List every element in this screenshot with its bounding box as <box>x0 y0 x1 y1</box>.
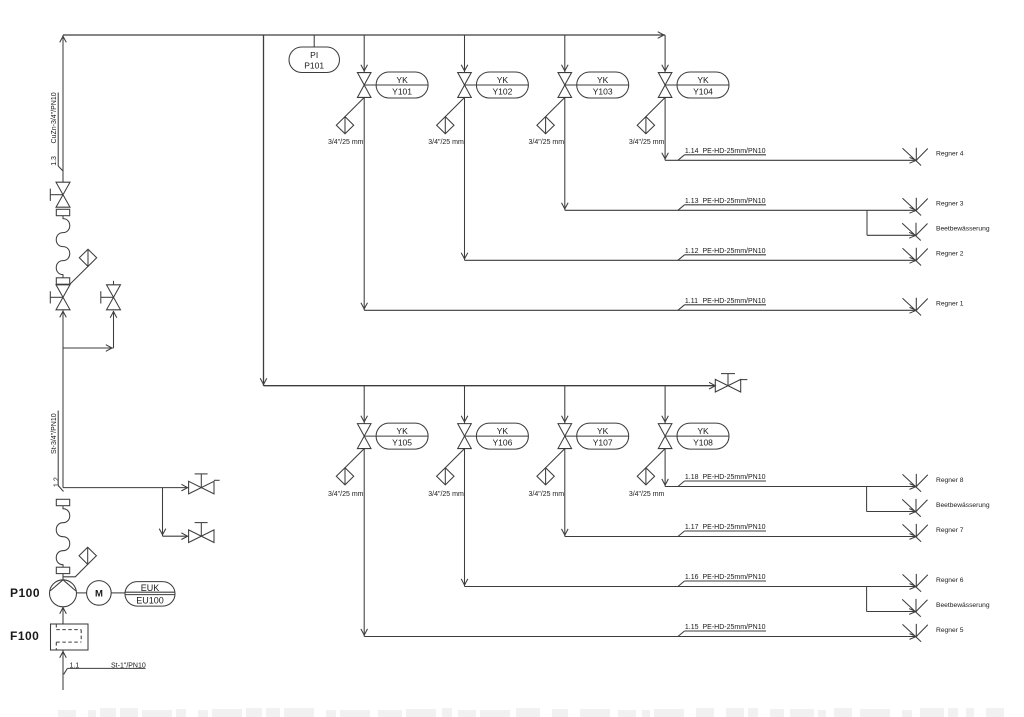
underline of label 1.12 <box>685 254 767 256</box>
svg-text:YK: YK <box>697 75 709 85</box>
wire drop from top manifold to valve Y102 <box>464 35 466 73</box>
svg-text:PE-HD-25mm/PN10: PE-HD-25mm/PN10 <box>703 248 766 255</box>
svg-text:Regner 7: Regner 7 <box>936 527 964 534</box>
hose connector diamond at Y103 <box>537 117 554 134</box>
svg-text:Y107: Y107 <box>593 438 613 448</box>
underline of label 1.11 <box>685 304 767 306</box>
valve V3 shutoff <box>107 285 121 310</box>
svg-text:PE-HD-25mm/PN10: PE-HD-25mm/PN10 <box>703 298 766 305</box>
underline of label 1.18 <box>685 480 767 482</box>
end faucet valve on lower manifold <box>715 379 740 392</box>
svg-text:YK: YK <box>597 426 609 436</box>
underline of label 1.15 <box>685 630 767 632</box>
instrument stub PI <box>313 35 315 47</box>
wire diamond D2 to pump inlet <box>64 564 88 576</box>
svg-text:EU100: EU100 <box>136 595 164 605</box>
svg-text:Regner 8: Regner 8 <box>936 477 964 484</box>
label bubble YK Y106 <box>465 423 529 449</box>
wire V3 branch riser <box>113 311 115 348</box>
svg-text:PE-HD-25mm/PN10: PE-HD-25mm/PN10 <box>703 198 766 205</box>
control unit EUK EU100 <box>125 582 175 607</box>
sprinkler Beetbewaesserung (1.13) <box>902 223 927 241</box>
valve V2 shutoff <box>56 285 70 310</box>
arrow flow down at line 1.13 corner <box>461 253 468 259</box>
solenoid valve Y103 <box>558 73 572 98</box>
wire drop from valve Y104 to line 1.11 <box>664 98 666 161</box>
sprinkler Regner 6 <box>903 574 928 592</box>
wire drop from top manifold to valve Y103 <box>564 35 566 73</box>
svg-text:Y108: Y108 <box>693 438 713 448</box>
stem and handle of faucet W1 <box>200 474 202 488</box>
label bubble YK Y103 <box>565 72 629 98</box>
wire drop from valve Y108 to line 1.15 <box>664 449 666 487</box>
stem and handle of faucet W2 <box>200 523 202 537</box>
svg-text:1.2: 1.2 <box>54 477 61 487</box>
wire drop from top manifold to valve Y104 <box>664 35 666 73</box>
svg-text:M: M <box>95 588 103 599</box>
sprinkler Regner 4 <box>903 148 928 166</box>
hose connector diamond D2 <box>79 547 96 564</box>
solenoid valve Y105 <box>357 424 371 449</box>
pipe line 1.13 <box>565 209 917 211</box>
wire beet branch off 1.13 <box>866 210 868 235</box>
arrow flow down to faucet W2 <box>159 529 166 535</box>
arrow flow down at line 1.14 corner <box>361 303 368 309</box>
union coupling U4 <box>56 567 69 573</box>
wire drop from lower manifold to valve Y105 <box>363 386 365 424</box>
hose connector diamond at Y101 <box>336 117 353 134</box>
wire beet branch off 1.16 <box>866 587 868 612</box>
underline of label 1.16 <box>685 580 767 582</box>
sprinkler Regner 8 <box>903 474 928 492</box>
handle of valve V1 <box>50 194 63 196</box>
wire diamond to valve Y108 <box>646 449 665 468</box>
union coupling U3 <box>56 499 69 505</box>
label bubble YK Y102 <box>465 72 529 98</box>
svg-text:Beetbewässerung: Beetbewässerung <box>936 502 990 509</box>
arrow flow right into faucet W2 <box>181 533 187 540</box>
sprinkler Beetbewaesserung (1.18) <box>902 499 927 517</box>
union coupling U2 <box>56 278 69 284</box>
sprinkler Regner 7 <box>903 524 928 542</box>
svg-text:Beetbewässerung: Beetbewässerung <box>936 602 990 609</box>
solenoid valve Y106 <box>458 424 472 449</box>
pipe line 1.15 <box>364 636 916 638</box>
label bubble YK Y107 <box>565 423 629 449</box>
underline of label 1.2 and St <box>57 411 59 486</box>
union coupling U1 <box>56 209 69 215</box>
wire drop from valve Y101 to line 1.14 <box>363 98 365 311</box>
label bubble YK Y101 <box>364 72 428 98</box>
pipe line 1.17 <box>565 536 917 538</box>
wire drop from valve Y107 to line 1.16 <box>564 449 566 537</box>
underline of label 1.13 <box>685 204 767 206</box>
arrow flow down into valve Y107 <box>562 416 569 422</box>
svg-text:PE-HD-25mm/PN10: PE-HD-25mm/PN10 <box>703 474 766 481</box>
pipe line 1.12 <box>465 259 917 261</box>
underline of label 1.1 <box>67 667 145 669</box>
hose connector diamond at Y105 <box>336 468 353 485</box>
svg-text:Y101: Y101 <box>392 86 412 96</box>
wire motor to EU100 <box>111 592 125 594</box>
svg-text:YK: YK <box>697 426 709 436</box>
label 1.3 line number <box>51 156 58 166</box>
wire top supply manifold <box>63 34 665 36</box>
wire drop from lower manifold to valve Y106 <box>464 386 466 424</box>
svg-text:3/4"/25 mm: 3/4"/25 mm <box>428 491 464 498</box>
svg-text:PE-HD-25mm/PN10: PE-HD-25mm/PN10 <box>703 524 766 531</box>
svg-text:3/4"/25 mm: 3/4"/25 mm <box>328 139 364 146</box>
svg-text:Regner 2: Regner 2 <box>936 251 964 258</box>
svg-text:3/4"/25 mm: 3/4"/25 mm <box>529 491 565 498</box>
arrow flow down into valve Y104 <box>662 65 669 71</box>
svg-text:Y106: Y106 <box>492 438 512 448</box>
tick of label 1.14 <box>678 155 685 161</box>
svg-text:P101: P101 <box>304 61 324 71</box>
hose connector diamond at Y104 <box>637 117 654 134</box>
flexible hose H2 <box>56 506 70 567</box>
svg-text:1.3: 1.3 <box>51 156 58 166</box>
svg-text:1.15: 1.15 <box>685 624 699 631</box>
svg-text:YK: YK <box>396 75 408 85</box>
pipe line 1.16 <box>465 586 917 588</box>
svg-text:YK: YK <box>396 426 408 436</box>
solenoid valve Y108 <box>658 424 672 449</box>
arrow flow up into pump <box>60 608 67 614</box>
svg-text:PI: PI <box>310 50 318 60</box>
pipe line 1.11 <box>364 309 916 311</box>
arrow flow up into filter <box>60 652 67 658</box>
outlet cap of end faucet <box>741 379 748 381</box>
underline of label 1.14 <box>685 154 767 156</box>
svg-text:Regner 1: Regner 1 <box>936 301 964 308</box>
solenoid valve Y104 <box>658 73 672 98</box>
svg-text:F100: F100 <box>10 629 39 643</box>
hose connector diamond D1 <box>79 249 96 266</box>
tick of label 1.2 <box>58 486 63 492</box>
wire filter to pump <box>62 607 64 624</box>
wire pump to motor <box>77 592 87 594</box>
pipe line 1.14 <box>665 159 916 161</box>
label 1.2 line number <box>54 477 61 487</box>
svg-text:Regner 4: Regner 4 <box>936 151 964 158</box>
arrow flow down at line 1.16 corner <box>562 529 569 535</box>
arrow flow down at line 1.18 corner <box>361 629 368 635</box>
wire drop from valve Y102 to line 1.13 <box>464 98 466 261</box>
instrument PI P101 <box>289 47 340 73</box>
wire beet branch off 1.18 <box>866 487 868 512</box>
tick of label 1.1 <box>64 668 68 674</box>
wire drop from valve Y106 to line 1.17 <box>464 449 466 587</box>
wire diamond to valve Y102 <box>445 98 464 117</box>
solenoid valve Y107 <box>558 424 572 449</box>
svg-text:3/4"/25 mm: 3/4"/25 mm <box>629 491 665 498</box>
svg-text:Y103: Y103 <box>593 86 613 96</box>
wire diamond to valve Y104 <box>646 98 665 117</box>
svg-text:YK: YK <box>497 75 509 85</box>
motor M <box>87 581 112 606</box>
hose connector diamond at Y108 <box>637 468 654 485</box>
hose connector diamond at Y106 <box>437 468 454 485</box>
wire diamond to valve Y103 <box>546 98 565 117</box>
wire second riser x264 <box>263 35 265 386</box>
sprinkler Regner 3 <box>903 198 928 216</box>
sprinkler Beetbewaesserung (1.16) <box>902 599 927 617</box>
label bubble YK Y105 <box>364 423 428 449</box>
arrow flow right into end valve <box>709 382 715 389</box>
tick of label 1.15 <box>678 631 685 637</box>
svg-text:P100: P100 <box>10 586 40 600</box>
footer text remnants (cut off) <box>58 708 1004 717</box>
svg-text:CuZn-3/4"/PN10: CuZn-3/4"/PN10 <box>51 92 58 143</box>
stem and handle of end faucet <box>727 374 729 386</box>
wire lower manifold <box>264 385 716 387</box>
wire faucet branch 1.2 <box>63 487 187 489</box>
wire drop from lower manifold to valve Y108 <box>664 386 666 424</box>
svg-text:St-3/4"/PN10: St-3/4"/PN10 <box>51 413 58 454</box>
arrow flow down at line 1.11 corner <box>662 153 669 159</box>
hose connector diamond at Y107 <box>537 468 554 485</box>
label bubble YK Y108 <box>665 423 729 449</box>
svg-text:PE-HD-25mm/PN10: PE-HD-25mm/PN10 <box>703 624 766 631</box>
arrow flow right into column Y104 corner <box>658 32 664 39</box>
wire diamond D1 to pipe <box>70 266 89 284</box>
pump P100 <box>50 580 77 607</box>
svg-text:1.13: 1.13 <box>685 198 699 205</box>
arrow flow down into valve Y101 <box>361 65 368 71</box>
svg-text:YK: YK <box>497 426 509 436</box>
tick of label 1.13 <box>678 205 685 211</box>
arrow flow up at top-left corner <box>60 36 67 42</box>
arrow flow up into valve V2 <box>60 311 67 317</box>
wire diamond to valve Y101 <box>345 98 364 117</box>
handle of valve V3 <box>101 296 114 298</box>
solenoid valve Y102 <box>458 73 472 98</box>
arrow flow down at lower manifold corner <box>260 378 267 384</box>
svg-text:Y105: Y105 <box>392 438 412 448</box>
tick of label 1.3 <box>58 166 63 171</box>
svg-text:YK: YK <box>597 75 609 85</box>
stub above valve V3 <box>113 281 115 285</box>
underline of label 1.3 and CuZn <box>57 93 59 167</box>
svg-text:Regner 5: Regner 5 <box>936 627 964 634</box>
label bubble YK Y104 <box>665 72 729 98</box>
svg-text:1.17: 1.17 <box>685 524 699 531</box>
svg-text:Y102: Y102 <box>492 86 512 96</box>
arrow flow down at line 1.12 corner <box>562 203 569 209</box>
svg-text:3/4"/25 mm: 3/4"/25 mm <box>328 491 364 498</box>
svg-text:3/4"/25 mm: 3/4"/25 mm <box>629 139 665 146</box>
wire drop from valve Y103 to line 1.12 <box>564 98 566 211</box>
underline of label 1.17 <box>685 530 767 532</box>
arrow flow right on V3 branch <box>106 345 112 352</box>
arrow flow right into faucet W1 <box>181 484 187 491</box>
hose connector diamond at Y102 <box>437 117 454 134</box>
handle of valve V2 <box>50 296 63 298</box>
svg-text:Regner 6: Regner 6 <box>936 577 964 584</box>
tick of label 1.11 <box>678 305 685 311</box>
tick of label 1.18 <box>678 481 685 487</box>
faucet valve W2 <box>189 530 214 543</box>
flexible hose H1 <box>56 216 70 278</box>
arrow flow down into valve Y106 <box>461 416 468 422</box>
wire diamond to valve Y107 <box>546 449 565 468</box>
sprinkler Regner 1 <box>903 298 928 316</box>
tick of label 1.16 <box>678 581 685 587</box>
wire to faucet W2 <box>163 535 187 537</box>
wire drop from lower manifold to valve Y107 <box>564 386 566 424</box>
svg-text:PE-HD-25mm/PN10: PE-HD-25mm/PN10 <box>703 574 766 581</box>
svg-text:PE-HD-25mm/PN10: PE-HD-25mm/PN10 <box>703 148 766 155</box>
outlet cap of faucet W1 <box>214 479 220 481</box>
tick of label 1.17 <box>678 531 685 537</box>
wire left riser upper <box>62 35 64 182</box>
wire tee drop to faucet W2 <box>162 488 164 537</box>
arrow flow down at line 1.17 corner <box>461 579 468 585</box>
svg-text:1.18: 1.18 <box>685 474 699 481</box>
svg-text:1.11: 1.11 <box>685 298 698 305</box>
pipe line 1.18 <box>665 486 916 488</box>
filter F100 <box>51 624 89 650</box>
wire branch to valve V3 <box>63 347 114 349</box>
wire union U4 to pump <box>62 574 64 580</box>
svg-text:3/4"/25 mm: 3/4"/25 mm <box>428 139 464 146</box>
label CuZn-3/4"/PN10 on riser <box>51 92 58 143</box>
solenoid valve Y101 <box>357 73 371 98</box>
faucet valve W1 <box>189 481 214 494</box>
label St-3/4"/PN10 on riser <box>51 413 58 454</box>
valve V1 shutoff on riser <box>56 182 70 207</box>
arrow flow down into valve Y103 <box>562 65 569 71</box>
sprinkler Regner 5 <box>903 624 928 642</box>
arrow flow up into valve V3 <box>110 312 117 318</box>
svg-text:Beetbewässerung: Beetbewässerung <box>936 226 990 233</box>
svg-text:Y104: Y104 <box>693 86 713 96</box>
wire diamond to valve Y106 <box>445 449 464 468</box>
arrow flow down into valve Y105 <box>361 416 368 422</box>
sprinkler Regner 2 <box>903 248 928 266</box>
arrow flow down at line 1.15 corner <box>662 479 669 485</box>
svg-text:1.14: 1.14 <box>685 148 699 155</box>
svg-text:1.16: 1.16 <box>685 574 699 581</box>
tick of label 1.12 <box>678 255 685 260</box>
svg-text:1.12: 1.12 <box>685 248 699 255</box>
wire drop from valve Y105 to line 1.18 <box>363 449 365 637</box>
wire riser mid section <box>62 311 64 488</box>
wire drop from top manifold to valve Y101 <box>363 35 365 73</box>
arrow flow down into valve Y102 <box>461 65 468 71</box>
wire inlet below filter <box>62 650 64 690</box>
svg-text:3/4"/25 mm: 3/4"/25 mm <box>529 139 565 146</box>
svg-text:EUK: EUK <box>141 583 160 593</box>
wire diamond to valve Y105 <box>345 449 364 468</box>
svg-text:Regner 3: Regner 3 <box>936 201 964 208</box>
arrow flow down into valve Y108 <box>662 416 669 422</box>
